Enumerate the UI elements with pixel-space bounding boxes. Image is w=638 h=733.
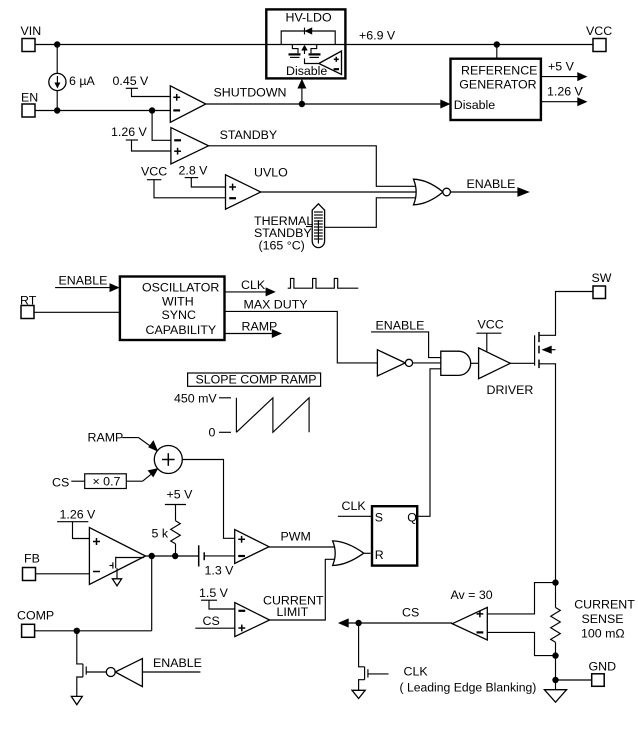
svg-text:Av = 30: Av = 30 (451, 588, 493, 602)
svg-text:0: 0 (209, 426, 216, 440)
svg-text:VCC: VCC (478, 318, 504, 332)
svg-text:HV-LDO: HV-LDO (286, 11, 332, 25)
svg-text:+5 V: +5 V (167, 488, 194, 502)
svg-text:1.26 V: 1.26 V (111, 125, 148, 139)
svg-text:ENABLE: ENABLE (153, 656, 202, 670)
svg-text:S: S (375, 510, 383, 524)
svg-text:Q: Q (407, 510, 417, 524)
svg-text:ENABLE: ENABLE (467, 177, 516, 191)
svg-text:SLOPE COMP RAMP: SLOPE COMP RAMP (196, 373, 317, 387)
svg-text:CAPABILITY: CAPABILITY (146, 323, 217, 337)
svg-text:CS: CS (52, 476, 69, 490)
svg-text:5 k: 5 k (152, 527, 169, 541)
svg-text:ENABLE: ENABLE (59, 274, 108, 288)
svg-text:GENERATOR: GENERATOR (459, 78, 536, 92)
svg-text:WITH: WITH (162, 294, 194, 308)
svg-text:EN: EN (21, 91, 38, 105)
svg-text:Disable: Disable (286, 64, 327, 78)
svg-text:RAMP: RAMP (242, 320, 278, 334)
svg-text:MAX DUTY: MAX DUTY (244, 298, 308, 312)
svg-text:CURRENT: CURRENT (574, 598, 635, 612)
svg-text:1.3 V: 1.3 V (205, 564, 235, 578)
svg-text:REFERENCE: REFERENCE (461, 64, 537, 78)
svg-text:ENABLE: ENABLE (376, 319, 425, 333)
svg-text:RAMP: RAMP (88, 431, 124, 445)
svg-text:CS: CS (402, 606, 419, 620)
svg-text:6 µA: 6 µA (69, 74, 95, 88)
svg-text:VIN: VIN (21, 24, 42, 38)
svg-text:+5 V: +5 V (548, 60, 575, 74)
svg-text:0.45 V: 0.45 V (113, 74, 150, 88)
svg-text:SW: SW (592, 271, 612, 285)
svg-text:CLK: CLK (342, 499, 367, 513)
svg-text:2.8 V: 2.8 V (179, 164, 209, 178)
svg-text:1.26 V: 1.26 V (60, 508, 97, 522)
svg-text:Disable: Disable (454, 98, 495, 112)
svg-text:VCC: VCC (141, 165, 167, 179)
svg-text:COMP: COMP (17, 609, 54, 623)
svg-text:RT: RT (20, 294, 37, 308)
svg-text:1.5 V: 1.5 V (199, 586, 229, 600)
svg-text:1.26 V: 1.26 V (547, 85, 584, 99)
svg-text:UVLO: UVLO (254, 166, 288, 180)
svg-text:VCC: VCC (586, 24, 612, 38)
svg-text:(165 °C): (165 °C) (259, 239, 305, 253)
svg-text:PWM: PWM (281, 530, 311, 544)
svg-text:SENSE: SENSE (582, 612, 624, 626)
svg-text:LIMIT: LIMIT (277, 605, 309, 619)
svg-text:DRIVER: DRIVER (487, 383, 534, 397)
svg-text:450 mV: 450 mV (174, 392, 217, 406)
svg-text:( Leading Edge Blanking): ( Leading Edge Blanking) (400, 681, 537, 695)
svg-text:OSCILLATOR: OSCILLATOR (142, 280, 219, 294)
svg-text:SYNC: SYNC (162, 308, 196, 322)
svg-text:× 0.7: × 0.7 (93, 475, 121, 489)
svg-text:CLK: CLK (241, 278, 266, 292)
svg-text:+6.9 V: +6.9 V (359, 29, 396, 43)
svg-text:CLK: CLK (404, 665, 429, 679)
svg-text:CS: CS (203, 614, 220, 628)
svg-text:FB: FB (24, 552, 40, 566)
svg-text:STANDBY: STANDBY (220, 128, 278, 142)
svg-text:SHUTDOWN: SHUTDOWN (214, 86, 287, 100)
svg-text:R: R (375, 548, 384, 562)
svg-text:GND: GND (589, 660, 617, 674)
svg-text:100 mΩ: 100 mΩ (581, 627, 625, 641)
